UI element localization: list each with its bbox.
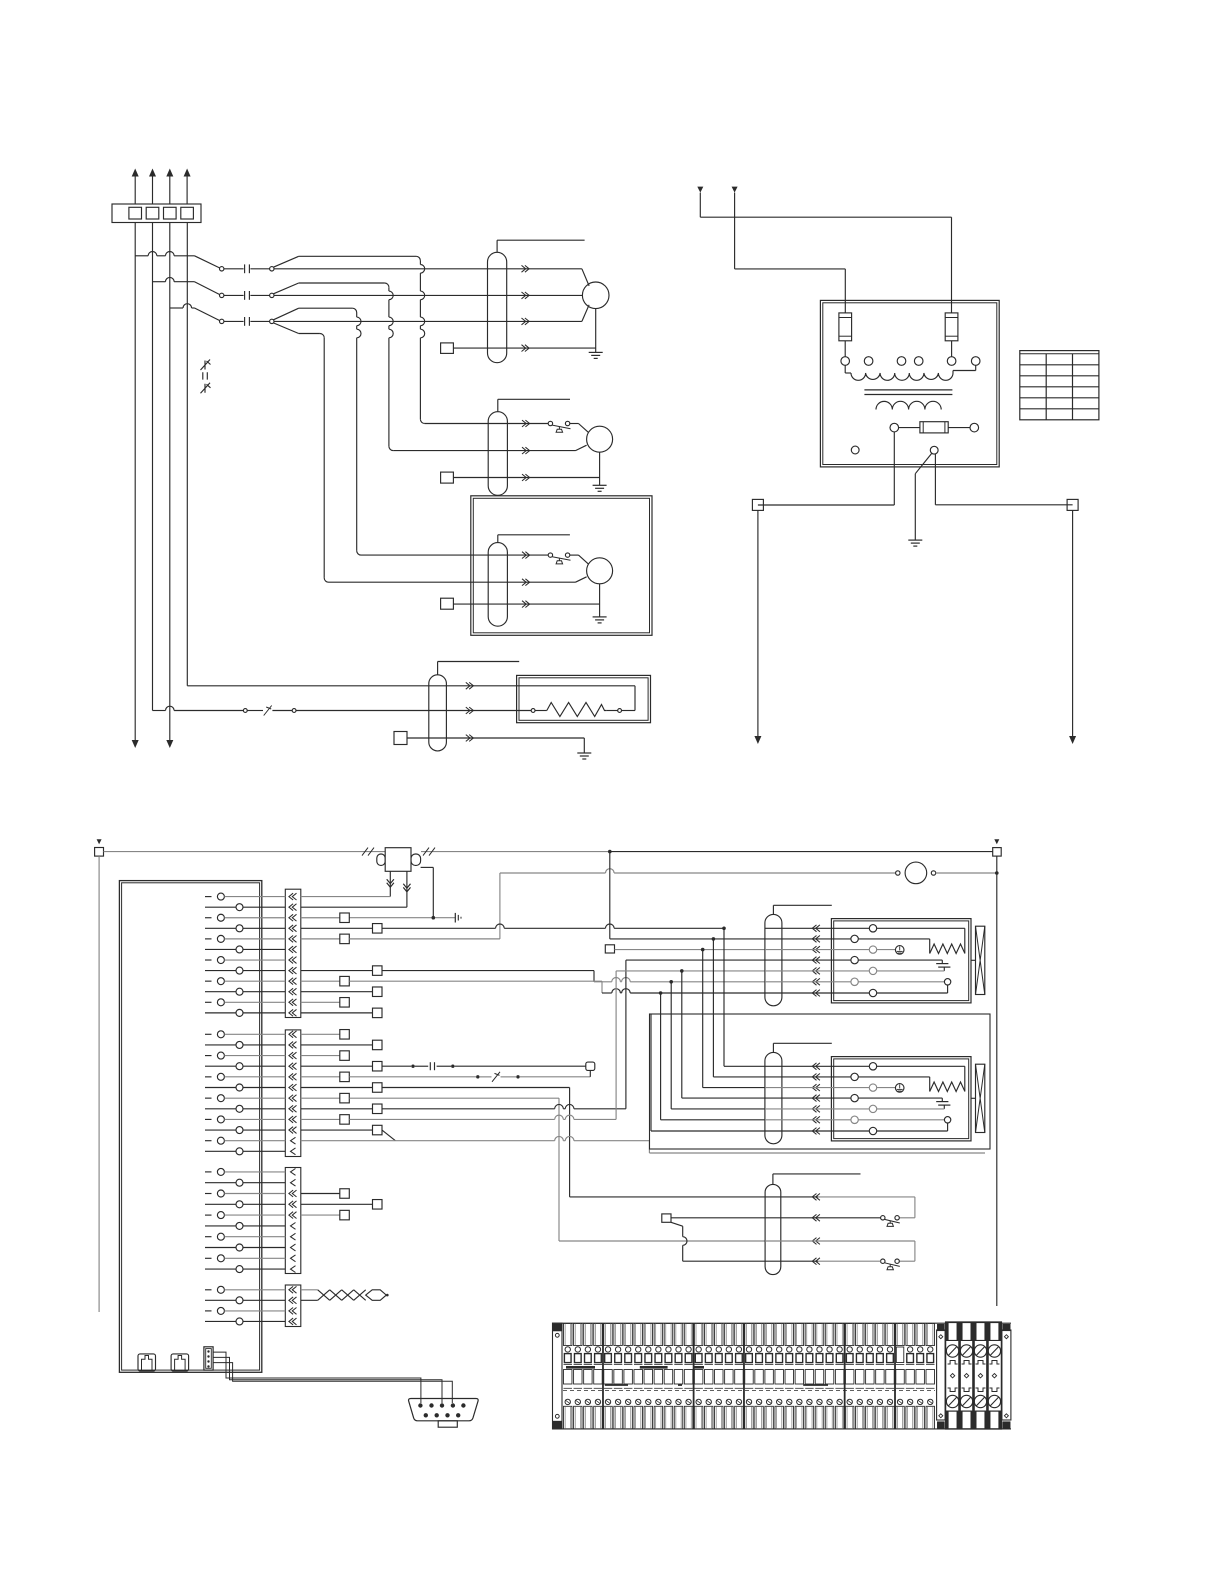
capacitor F1 <box>858 959 942 961</box>
terminal pin X2.12 <box>205 1012 236 1014</box>
motor M2 <box>570 423 579 425</box>
terminal pin X2.9 <box>205 980 212 982</box>
connector strip X3 <box>285 1030 301 1157</box>
thermostat circuit 1 <box>765 1196 818 1198</box>
wire X2.4 long feed <box>301 927 373 929</box>
terminal pin X4.2 <box>205 1182 236 1184</box>
node square top-right <box>994 839 999 844</box>
sensor line X3.4 <box>301 1065 373 1067</box>
terminal pin X3.5 <box>205 1076 212 1078</box>
cable gland S <box>765 1184 781 1274</box>
wire X3.6 to sensor gland <box>301 1087 373 1089</box>
gland M3 leader <box>497 535 499 543</box>
terminal pin X2.10 <box>205 991 236 993</box>
thermal contact F1 <box>858 981 944 983</box>
gland E1 leader <box>437 662 439 675</box>
terminal pin X4.6 <box>205 1225 236 1227</box>
end bracket mid <box>937 1330 946 1420</box>
terminal pin X3.12 <box>205 1150 236 1152</box>
gland M2 leader <box>497 399 499 411</box>
terminal modules <box>564 1324 572 1346</box>
E1 conductor marks <box>466 682 474 689</box>
terminal pin X2.1 <box>205 896 212 898</box>
cable gland F2 <box>765 1052 782 1143</box>
earth terminal 3 <box>976 1323 985 1341</box>
fan1 feed row2 <box>610 938 765 940</box>
gland S leader <box>772 1174 774 1185</box>
heater F1 <box>877 927 965 929</box>
wire N drop <box>186 223 188 686</box>
terminal pin X3.7 <box>205 1097 212 1099</box>
mains filter Z1 <box>377 854 385 865</box>
fuse F2 <box>945 313 958 341</box>
square terminal TL <box>752 499 763 510</box>
terminal pin X2.11 <box>205 1001 212 1003</box>
terminal pin X5.1 <box>205 1289 212 1291</box>
terminal pin X3.11 <box>205 1140 212 1142</box>
secondary winding <box>876 401 941 409</box>
node square top-left <box>97 839 102 844</box>
branch to fan feed <box>608 850 612 854</box>
drop wires to fan2 <box>722 927 726 931</box>
fuse F1 <box>839 313 852 341</box>
terminal pin X4.4 <box>205 1203 236 1205</box>
supply arrows up <box>134 175 136 204</box>
wire L3 drop <box>169 223 171 742</box>
frame wire right <box>996 856 998 1306</box>
connector strip X4 <box>285 1168 301 1274</box>
wire X2.3 shield <box>301 917 340 919</box>
RJ45 jack 1 <box>138 1354 156 1371</box>
transformer box T1 <box>820 300 999 467</box>
thermal contact M3 <box>548 553 552 557</box>
gland F1 leader <box>772 905 774 914</box>
earth terminal 4 <box>990 1323 999 1341</box>
serial cable <box>213 1352 421 1403</box>
earth of transformer <box>915 453 931 473</box>
primary winding <box>844 365 846 373</box>
PE square E1 <box>394 732 407 745</box>
fan box F2 <box>831 1057 971 1141</box>
wire X2.5 to lamp <box>301 938 340 940</box>
terminal pin X2.5 <box>205 938 212 940</box>
spare X4.5 <box>301 1214 340 1216</box>
heater element R1 <box>634 686 636 711</box>
twisted pair X5 <box>301 1289 318 1291</box>
heater box <box>517 675 651 722</box>
primary terminals <box>841 357 850 366</box>
PE square M3 <box>441 598 454 609</box>
M2 conductor marks <box>522 420 530 427</box>
heater F2 <box>877 1065 965 1067</box>
PE wire M3 to earth <box>453 603 599 605</box>
wire X3.9 riser <box>301 1118 340 1120</box>
thermal contact M2 <box>548 421 552 425</box>
terminal 0V <box>930 446 938 454</box>
terminals F1 <box>765 927 869 929</box>
core <box>864 389 952 391</box>
terminal pin X2.2 <box>205 906 236 908</box>
lamp feed (grey) <box>499 873 501 939</box>
lamp H1 <box>896 871 900 875</box>
terminal pin X4.7 <box>205 1236 212 1238</box>
end bracket left <box>553 1323 563 1429</box>
serial header <box>204 1347 213 1370</box>
wire 0V to right square <box>934 454 936 505</box>
terminal pin X3.2 <box>205 1044 236 1046</box>
terminal pin X3.9 <box>205 1118 212 1120</box>
PE wire M2 to earth <box>453 477 599 479</box>
wire L2 drop <box>152 223 154 711</box>
feed wire b <box>735 268 846 270</box>
fan box F1 <box>831 919 971 1003</box>
terminal block X0 <box>112 204 201 223</box>
wire S1 to left square <box>893 432 895 505</box>
wire X3.10 spare <box>301 1129 373 1131</box>
sensor line X3.5 <box>301 1076 340 1078</box>
secondary fuse F3 <box>899 427 920 429</box>
disconnect pole 1 <box>135 255 148 257</box>
M1 conductor marks <box>522 265 530 272</box>
phase1 line to motor M1 <box>274 268 582 270</box>
wire L1 drop <box>134 223 136 742</box>
filter outlet b <box>406 871 408 907</box>
earth terminal block <box>946 1322 1002 1341</box>
terminal pin X2.4 <box>205 927 236 929</box>
cable gland M1 <box>488 252 507 362</box>
terminal pin X4.9 <box>205 1257 212 1259</box>
jumper bars <box>566 1366 595 1369</box>
supply arrow T1-a <box>697 187 703 193</box>
enclosure M3 <box>471 496 652 636</box>
filter outlet a <box>389 871 391 896</box>
terminal pin X2.8 <box>205 970 236 972</box>
branch phase1 feeder <box>273 256 298 267</box>
spare X4.3 <box>301 1193 340 1195</box>
spare X4.4 <box>301 1203 373 1205</box>
RJ45 jack 2 <box>171 1354 189 1371</box>
terminal aux <box>851 446 859 454</box>
terminal pin X5.4 <box>205 1320 236 1322</box>
terminal pin X4.8 <box>205 1247 236 1249</box>
terminal pin X3.10 <box>205 1129 236 1131</box>
cable gland E1 <box>429 675 447 751</box>
connector strip X5 <box>285 1285 301 1327</box>
F2 conductor marks <box>812 1063 820 1070</box>
gland M1 leader <box>496 240 498 252</box>
spare X2.10 <box>301 991 373 993</box>
terminal strip X1 rail <box>552 1322 1011 1324</box>
heater feed N <box>187 685 635 687</box>
feed wire a <box>700 216 951 218</box>
branch phase3 feeder lower <box>273 323 298 334</box>
sensor plug <box>586 1062 595 1070</box>
cable marker <box>201 360 211 371</box>
thermostat circuit 2 <box>765 1240 818 1242</box>
spare X2.11 <box>301 1001 340 1003</box>
shield symbol <box>454 913 456 923</box>
wire X2.9 stepped <box>301 980 340 982</box>
square terminal TR <box>1067 499 1078 510</box>
branch phase3 feeder upper <box>273 308 298 320</box>
supply arrow T1-b <box>732 187 738 193</box>
heater feed L2 <box>153 710 166 712</box>
terminal pin X5.3 <box>205 1310 212 1312</box>
earth terminal 2 <box>962 1323 971 1341</box>
cable gland M3 <box>488 543 507 627</box>
wire X3.8 riser <box>301 1108 373 1110</box>
heater PE to earth <box>407 737 584 739</box>
thermal contact F2 <box>858 1119 944 1121</box>
spare X3.2 <box>301 1044 373 1046</box>
terminal pin X4.10 <box>205 1268 236 1270</box>
fan2 enclosure <box>650 1014 991 1149</box>
S conductor marks <box>812 1194 820 1201</box>
earth terminal F1 <box>877 949 896 951</box>
spare X3.3 <box>301 1055 340 1057</box>
disconnect pole 3 <box>170 307 183 309</box>
wire X3.7 to sensor gland <box>301 1097 340 1099</box>
terminal pin X3.6 <box>205 1087 236 1089</box>
wire X2.2 to filter <box>301 906 407 908</box>
frame wire top (grey) <box>104 851 386 853</box>
terminal pin X2.7 <box>205 959 212 961</box>
fan1 feed row3 square <box>605 945 614 953</box>
motor M3 <box>570 554 579 556</box>
phase2 line to motor M1 <box>274 294 582 296</box>
terminal pin X3.8 <box>205 1108 236 1110</box>
drop wire right with arrow <box>1072 510 1074 737</box>
end bracket right <box>1002 1330 1011 1420</box>
motor M1 <box>582 269 589 286</box>
secondary terminal S2 <box>970 423 979 432</box>
M3 conductor marks <box>522 552 530 559</box>
disconnect pole 2 <box>153 281 166 283</box>
terminal pin X2.3 <box>205 917 212 919</box>
earth terminal 1 <box>948 1323 957 1341</box>
PE wire M1 to earth <box>453 347 595 349</box>
terminal pin X3.1 <box>205 1033 212 1035</box>
PE square M1 <box>441 343 454 354</box>
phase3 line to motor M1 <box>274 320 582 322</box>
terminal pin X4.5 <box>205 1214 212 1216</box>
terminal pin X3.4 <box>205 1065 236 1067</box>
connector strip X2 <box>285 889 301 1017</box>
wire X2.8 stepped <box>301 970 373 972</box>
spare X3.1 <box>301 1033 340 1035</box>
gland F2 leader <box>772 1043 774 1052</box>
sensor branch wire <box>671 1222 683 1226</box>
capacitor F2 <box>858 1097 942 1099</box>
terminal pin X4.1 <box>205 1171 212 1173</box>
drop wire left with arrow <box>757 510 759 737</box>
voltage table <box>1020 351 1099 420</box>
filter earth tab <box>421 866 434 868</box>
sensor square S <box>662 1214 671 1222</box>
controller box A1 <box>119 881 261 1373</box>
terminals F2 <box>765 1065 869 1067</box>
shield bond wire (grey) <box>349 917 455 919</box>
wire X3.11 (grey) <box>301 1140 555 1142</box>
DB9 connector <box>409 1399 479 1421</box>
dashed marker line <box>563 1390 935 1392</box>
cable gland M2 <box>488 412 507 496</box>
fan symbol F2 <box>971 1097 976 1099</box>
cable gland F1 <box>765 914 782 1005</box>
terminal pin X5.2 <box>205 1299 236 1301</box>
terminal pin X4.3 <box>205 1193 212 1195</box>
F1 conductor marks <box>812 925 820 932</box>
spare X2.12 <box>301 1012 373 1014</box>
PE square M2 <box>441 472 454 483</box>
secondary terminal S1 <box>890 423 899 432</box>
earth terminal F2 <box>877 1087 896 1089</box>
branch phase2 feeder <box>273 283 298 294</box>
terminal pin X3.3 <box>205 1055 212 1057</box>
wire X2.1 to filter <box>301 896 391 898</box>
fan symbol F1 <box>971 959 976 961</box>
frame wire left (grey) <box>98 856 100 1312</box>
terminal pin X2.6 <box>205 948 236 950</box>
